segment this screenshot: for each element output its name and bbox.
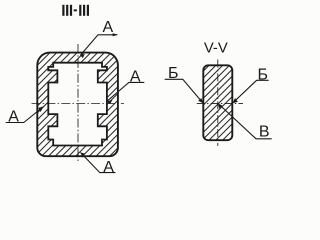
svg-text:Б: Б [168, 65, 179, 82]
leader A right [107, 82, 144, 104]
vertical centerline of V-V [217, 60, 219, 147]
outer contour of section III-III [37, 53, 118, 157]
leader B-left (Б) [165, 79, 204, 103]
outer contour of section V-V [203, 65, 232, 140]
svg-text:V-V: V-V [204, 40, 228, 56]
hatching of section V-V [58, 50, 320, 155]
hatching of section III-III walls [0, 30, 270, 175]
horizontal centerline of V-V [197, 102, 243, 104]
leader V (В) from centre [218, 103, 272, 139]
svg-text:А: А [102, 19, 113, 36]
svg-text:В: В [259, 124, 270, 141]
leader A left [6, 107, 44, 123]
svg-text:А: А [8, 109, 19, 126]
inner cavity contour of section III-III [48, 63, 107, 146]
vertical centerline of III-III [77, 44, 79, 163]
leader A bottom [81, 153, 116, 173]
svg-text:А: А [130, 69, 141, 86]
title III-III [62, 5, 89, 16]
leader A top [80, 33, 118, 58]
leader B-right (Б) [232, 80, 268, 103]
svg-text:Б: Б [258, 67, 269, 84]
svg-text:А: А [103, 159, 114, 176]
horizontal centerline of III-III [32, 103, 125, 105]
